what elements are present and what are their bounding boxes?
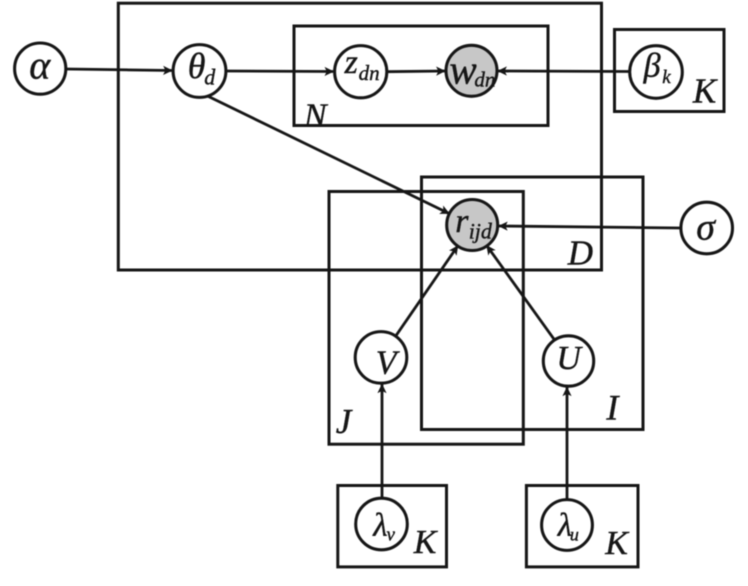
svg-text:r: r [455,203,469,240]
node alpha [15,42,66,94]
wire beta->w [498,70,630,73]
wire alpha->theta [66,69,172,71]
svg-text:dn: dn [474,68,495,92]
svg-text:β: β [643,48,661,85]
wire theta->r [207,96,450,214]
svg-text:U: U [556,340,583,377]
svg-text:k: k [662,67,671,88]
wire z->w [387,70,445,73]
svg-text:λ: λ [372,507,387,543]
svg-text:K: K [692,72,718,111]
svg-text:z: z [344,44,358,81]
svg-text:u: u [570,525,579,545]
svg-text:α: α [29,42,51,87]
plate I [422,177,644,430]
wire lambda_v->V [381,385,384,499]
node theta_d [173,45,226,98]
svg-text:D: D [567,234,593,273]
node sigma [681,202,733,254]
wire theta->z [226,70,333,73]
wire V->r [396,246,458,336]
plate K (lambda_u) [526,486,638,567]
svg-text:dn: dn [359,61,380,85]
node w_dn (shaded) [446,45,497,96]
node z_dn [335,44,387,98]
node lambda_u [542,500,593,551]
wire lambda_u->U [566,388,569,500]
plate N [294,26,548,126]
svg-text:w: w [449,46,477,92]
svg-text:K: K [604,525,630,562]
wire U->r [487,246,555,341]
plate K (lambda_v) [338,486,447,567]
svg-text:v: v [387,525,396,546]
node r_ijd (shaded) [447,200,498,251]
svg-text:I: I [605,388,620,428]
svg-text:N: N [303,97,329,134]
svg-text:σ: σ [696,207,716,249]
svg-text:J: J [336,402,353,441]
svg-text:ijd: ijd [469,219,493,244]
node U [543,336,593,386]
node V [355,332,407,384]
node lambda_v [356,498,408,550]
wire sigma->r [499,226,681,228]
node beta_k [630,46,683,99]
plate D [118,3,601,270]
plate K (beta) [615,30,725,112]
svg-text:θ: θ [188,46,206,86]
svg-text:d: d [204,64,216,89]
svg-text:K: K [413,524,439,561]
plate J [329,192,523,445]
